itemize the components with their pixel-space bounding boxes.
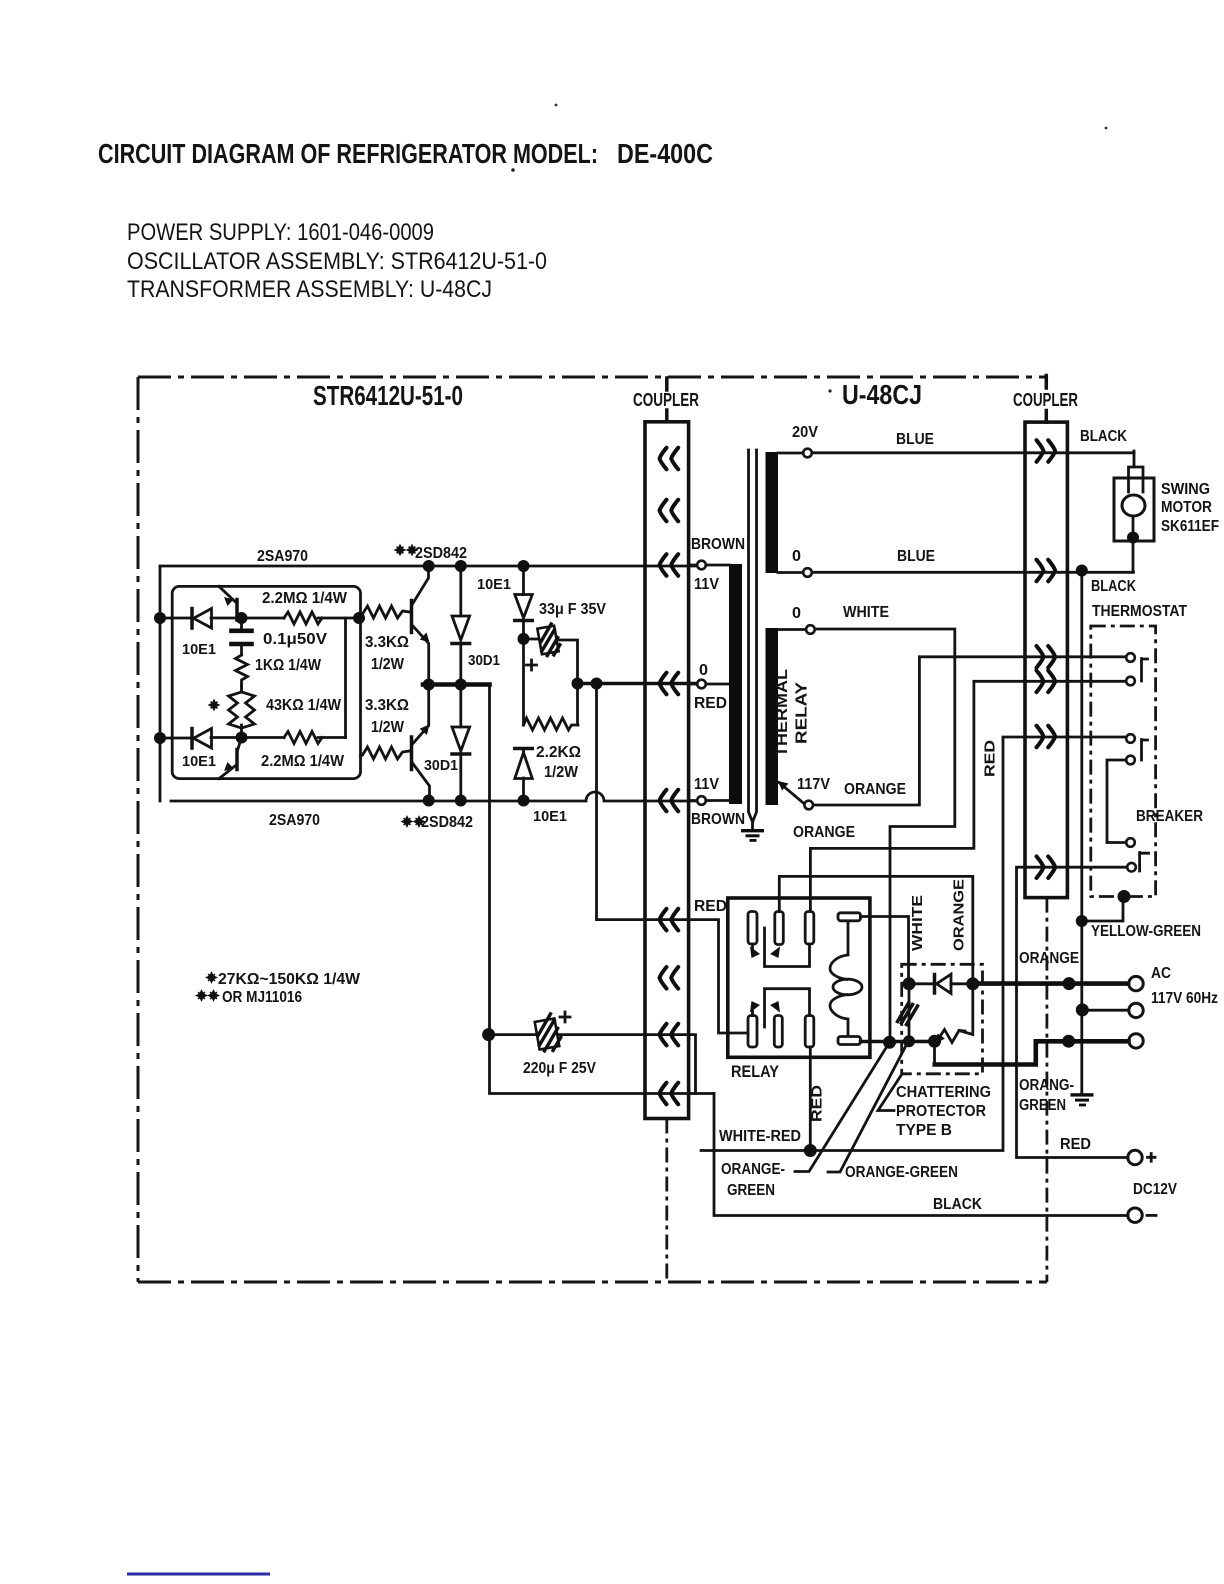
svg-text:BLACK: BLACK xyxy=(933,1196,982,1213)
svg-text:DC12V: DC12V xyxy=(1133,1181,1177,1198)
svg-text:AC: AC xyxy=(1151,965,1171,982)
svg-text:1KΩ 1/4W: 1KΩ 1/4W xyxy=(255,657,322,674)
svg-text:THERMAL: THERMAL xyxy=(774,669,791,757)
svg-text:SK611EF: SK611EF xyxy=(1161,518,1219,535)
svg-text:3.3KΩ: 3.3KΩ xyxy=(365,634,409,651)
svg-text:BLUE: BLUE xyxy=(897,548,935,565)
svg-text:2.2MΩ 1/4W: 2.2MΩ 1/4W xyxy=(261,753,345,770)
svg-text:1/2W: 1/2W xyxy=(371,719,405,736)
svg-text:ORANGE: ORANGE xyxy=(1019,950,1079,967)
svg-text:3.3KΩ: 3.3KΩ xyxy=(365,697,409,714)
svg-text:WHITE-RED: WHITE-RED xyxy=(719,1128,801,1145)
svg-text:220μ F 25V: 220μ F 25V xyxy=(523,1060,596,1077)
svg-text:ORANGE-GREEN: ORANGE-GREEN xyxy=(845,1164,958,1181)
svg-text:RED: RED xyxy=(1060,1136,1091,1153)
svg-text:DE-400C: DE-400C xyxy=(617,138,713,169)
svg-text:RELAY: RELAY xyxy=(794,681,811,744)
svg-text:YELLOW-GREEN: YELLOW-GREEN xyxy=(1091,923,1201,940)
svg-text:20V: 20V xyxy=(792,424,818,441)
svg-text:RED: RED xyxy=(809,1085,826,1122)
svg-text:ORANG-: ORANG- xyxy=(1019,1077,1074,1094)
svg-text:TYPE B: TYPE B xyxy=(896,1122,952,1139)
svg-text:11V: 11V xyxy=(694,776,719,793)
svg-text:BLACK: BLACK xyxy=(1080,428,1127,445)
svg-text:WHITE: WHITE xyxy=(909,895,926,951)
svg-text:COUPLER: COUPLER xyxy=(1013,390,1078,410)
svg-text:33μ F 35V: 33μ F 35V xyxy=(539,601,606,618)
svg-text:PROTECTOR: PROTECTOR xyxy=(896,1103,986,1120)
svg-text:1/2W: 1/2W xyxy=(371,656,405,673)
svg-text:10E1: 10E1 xyxy=(182,753,216,770)
svg-text:CHATTERING: CHATTERING xyxy=(896,1084,991,1101)
svg-text:0.1μ50V: 0.1μ50V xyxy=(263,631,327,648)
svg-text:27KΩ~150KΩ 1/4W: 27KΩ~150KΩ 1/4W xyxy=(218,971,361,988)
svg-text:OR MJ11016: OR MJ11016 xyxy=(222,989,302,1006)
svg-text:117V: 117V xyxy=(797,776,830,793)
svg-text:43KΩ 1/4W: 43KΩ 1/4W xyxy=(266,697,342,714)
svg-text:RED: RED xyxy=(694,898,727,915)
svg-text:STR6412U-51-0: STR6412U-51-0 xyxy=(313,380,463,411)
svg-text:U-48CJ: U-48CJ xyxy=(842,379,922,410)
svg-text:30D1: 30D1 xyxy=(468,652,500,669)
svg-text:0: 0 xyxy=(792,605,801,622)
svg-text:117V 60Hz: 117V 60Hz xyxy=(1151,990,1218,1007)
svg-text:1/2W: 1/2W xyxy=(544,764,579,781)
svg-text:OSCILLATOR ASSEMBLY: STR6412U-: OSCILLATOR ASSEMBLY: STR6412U-51-0 xyxy=(127,248,547,275)
svg-text:ORANGE-: ORANGE- xyxy=(721,1161,785,1178)
svg-text:RED: RED xyxy=(694,695,727,712)
svg-text:BROWN: BROWN xyxy=(691,811,745,828)
svg-text:10E1: 10E1 xyxy=(533,808,567,825)
svg-text:2SD842: 2SD842 xyxy=(421,814,473,831)
svg-text:2.2MΩ 1/4W: 2.2MΩ 1/4W xyxy=(262,590,348,607)
svg-text:2.2KΩ: 2.2KΩ xyxy=(536,744,581,761)
svg-text:30D1: 30D1 xyxy=(424,757,458,774)
svg-text:10E1: 10E1 xyxy=(182,641,216,658)
svg-text:0: 0 xyxy=(699,662,708,679)
svg-text:ORANGE: ORANGE xyxy=(844,781,906,798)
svg-text:11V: 11V xyxy=(694,576,719,593)
svg-text:RED: RED xyxy=(982,740,999,777)
svg-text:SWING: SWING xyxy=(1161,481,1210,498)
svg-text:2SA970: 2SA970 xyxy=(257,548,308,565)
svg-text:BLACK: BLACK xyxy=(1091,578,1136,595)
svg-text:POWER SUPPLY: 1601-046-0009: POWER SUPPLY: 1601-046-0009 xyxy=(127,219,434,246)
svg-text:TRANSFORMER ASSEMBLY: U-48CJ: TRANSFORMER ASSEMBLY: U-48CJ xyxy=(127,276,492,303)
svg-text:MOTOR: MOTOR xyxy=(1161,499,1212,516)
svg-text:BROWN: BROWN xyxy=(691,536,745,553)
svg-text:BLUE: BLUE xyxy=(896,431,934,448)
svg-text:10E1: 10E1 xyxy=(477,576,511,593)
svg-text:THERMOSTAT: THERMOSTAT xyxy=(1092,603,1187,620)
svg-text:WHITE: WHITE xyxy=(843,604,889,621)
svg-text:0: 0 xyxy=(792,548,801,565)
svg-text:ORANGE: ORANGE xyxy=(793,824,855,841)
svg-text:2SD842: 2SD842 xyxy=(415,545,467,562)
svg-text:ORANGE: ORANGE xyxy=(951,879,968,951)
svg-text:BREAKER: BREAKER xyxy=(1136,808,1203,825)
svg-text:2SA970: 2SA970 xyxy=(269,812,320,829)
svg-text:COUPLER: COUPLER xyxy=(633,390,699,410)
svg-text:GREEN: GREEN xyxy=(727,1182,775,1199)
svg-text:RELAY: RELAY xyxy=(731,1062,780,1081)
svg-text:GREEN: GREEN xyxy=(1019,1097,1066,1114)
svg-text:CIRCUIT DIAGRAM OF REFRIGERATO: CIRCUIT DIAGRAM OF REFRIGERATOR MODEL: xyxy=(98,138,598,169)
